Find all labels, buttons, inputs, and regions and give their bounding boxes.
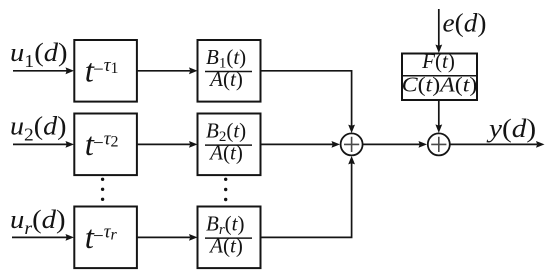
svg-text:u1(d): u1(d) (10, 38, 68, 71)
svg-text:A(t): A(t) (208, 233, 243, 257)
svg-text:ur(d): ur(d) (10, 205, 66, 238)
svg-text:A(t): A(t) (208, 67, 243, 91)
svg-text:C(t)A(t): C(t)A(t) (402, 73, 478, 96)
svg-text:y(d): y(d) (486, 114, 536, 143)
svg-text:A(t): A(t) (208, 140, 243, 164)
svg-text:e(d): e(d) (443, 8, 487, 37)
svg-text:F(t): F(t) (421, 49, 455, 73)
svg-text:u2(d): u2(d) (10, 112, 67, 146)
